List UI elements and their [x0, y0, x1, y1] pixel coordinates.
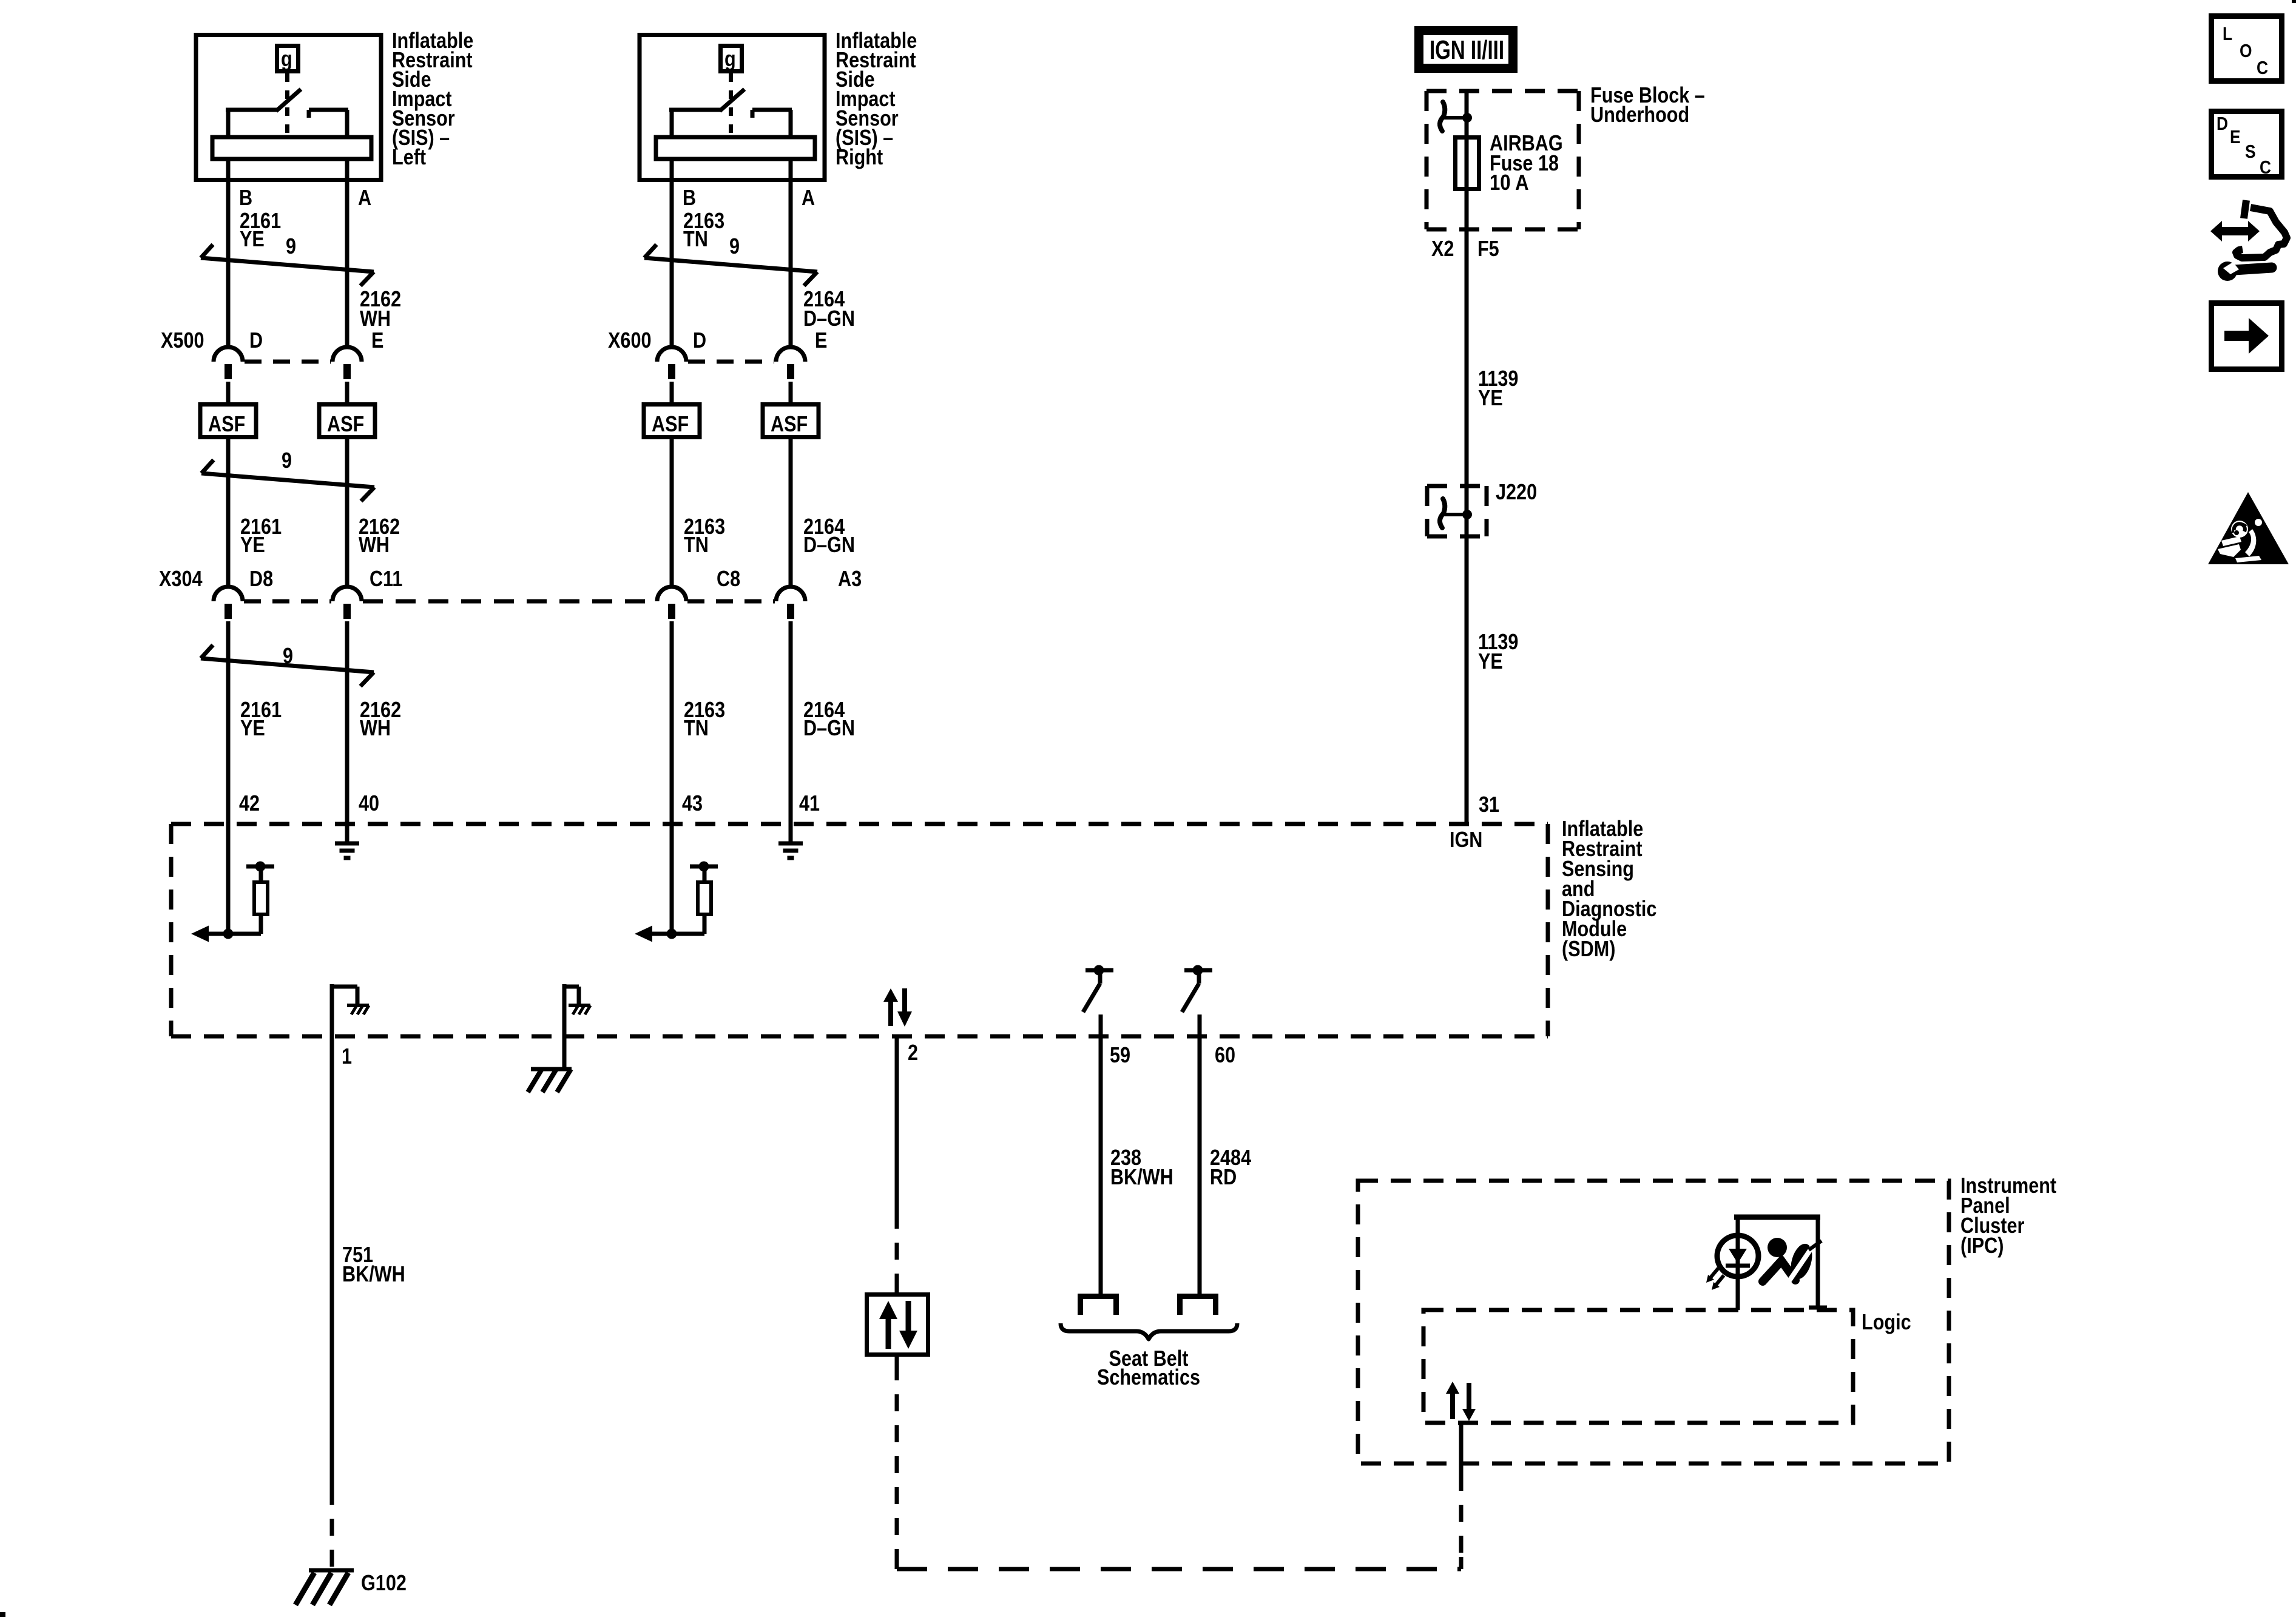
svg-text:TN: TN — [684, 532, 709, 557]
svg-text:A: A — [358, 185, 371, 210]
svg-text:D–GN: D–GN — [803, 306, 855, 331]
svg-text:BK/WH: BK/WH — [1110, 1164, 1173, 1189]
svg-text:C: C — [2260, 157, 2271, 178]
svg-text:41: 41 — [799, 791, 820, 815]
svg-text:31: 31 — [1479, 792, 1499, 817]
svg-text:Schematics: Schematics — [1097, 1365, 1200, 1389]
svg-text:(SDM): (SDM) — [1562, 936, 1615, 961]
svg-text:WH: WH — [360, 715, 391, 740]
svg-text:59: 59 — [1110, 1042, 1130, 1067]
svg-text:WH: WH — [359, 532, 390, 557]
svg-text:E: E — [815, 328, 827, 353]
svg-text:YE: YE — [1478, 385, 1503, 410]
svg-text:E: E — [371, 328, 383, 353]
svg-text:TN: TN — [684, 715, 709, 740]
svg-text:60: 60 — [1215, 1042, 1235, 1067]
svg-text:9: 9 — [286, 234, 296, 258]
svg-text:(IPC): (IPC) — [1960, 1233, 2004, 1258]
svg-text:C11: C11 — [370, 566, 402, 591]
svg-text:Logic: Logic — [1862, 1309, 1911, 1334]
svg-text:D–GN: D–GN — [803, 715, 855, 740]
svg-text:S: S — [2245, 141, 2256, 162]
svg-text:X600: X600 — [608, 328, 652, 353]
svg-text:YE: YE — [240, 226, 265, 251]
svg-text:A3: A3 — [838, 566, 862, 591]
svg-text:10 A: 10 A — [1490, 170, 1529, 195]
svg-text:J220: J220 — [1496, 479, 1537, 504]
svg-text:WH: WH — [360, 306, 391, 331]
svg-text:X2: X2 — [1431, 236, 1454, 261]
svg-text:Right: Right — [836, 144, 883, 169]
svg-text:D: D — [693, 328, 706, 353]
svg-text:B: B — [239, 185, 252, 210]
svg-text:TN: TN — [683, 226, 708, 251]
svg-text:O: O — [2240, 40, 2252, 61]
svg-text:IGN II/III: IGN II/III — [1430, 35, 1504, 65]
svg-text:X304: X304 — [159, 566, 203, 591]
svg-text:A: A — [802, 185, 815, 210]
svg-text:Left: Left — [392, 144, 426, 169]
svg-text:D: D — [249, 328, 263, 353]
svg-text:9: 9 — [283, 643, 293, 668]
svg-text:L: L — [2223, 23, 2232, 44]
svg-text:BK/WH: BK/WH — [342, 1261, 405, 1286]
svg-text:IGN: IGN — [1450, 827, 1482, 852]
svg-text:D8: D8 — [249, 566, 273, 591]
svg-text:1: 1 — [342, 1044, 352, 1068]
svg-text:B: B — [683, 185, 696, 210]
svg-text:9: 9 — [729, 234, 740, 258]
svg-text:YE: YE — [1478, 649, 1503, 673]
svg-text:YE: YE — [240, 715, 265, 740]
svg-text:9: 9 — [282, 448, 292, 473]
svg-text:42: 42 — [239, 791, 260, 815]
svg-text:X500: X500 — [161, 328, 204, 353]
svg-text:G102: G102 — [361, 1570, 407, 1595]
svg-text:C8: C8 — [717, 566, 740, 591]
svg-text:D–GN: D–GN — [803, 532, 855, 557]
svg-text:43: 43 — [682, 791, 703, 815]
svg-text:Underhood: Underhood — [1590, 102, 1689, 127]
svg-text:C: C — [2257, 57, 2268, 78]
svg-text:40: 40 — [359, 791, 379, 815]
svg-text:E: E — [2230, 126, 2241, 147]
svg-text:2: 2 — [908, 1040, 918, 1065]
svg-text:F5: F5 — [1477, 236, 1499, 261]
svg-text:D: D — [2217, 113, 2228, 134]
svg-text:RD: RD — [1210, 1164, 1237, 1189]
svg-text:YE: YE — [240, 532, 265, 557]
